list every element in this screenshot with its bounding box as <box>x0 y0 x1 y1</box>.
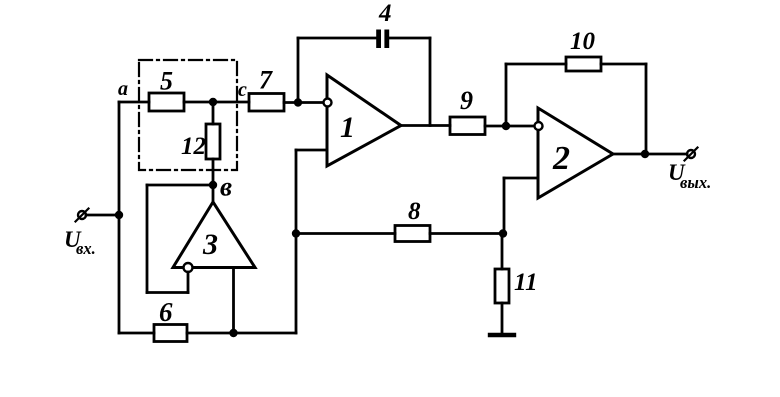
dashed box around 5 and 12 <box>139 60 237 170</box>
op-amp 1 <box>324 75 402 166</box>
wire op-amp2 lower input <box>504 177 538 180</box>
resistor 5 <box>149 93 184 111</box>
wire left vertical bus a-to-bottom <box>118 102 121 333</box>
junction row8 left node <box>292 229 300 237</box>
output terminal Uвых. <box>685 148 698 161</box>
wire feedback top right segment <box>389 37 430 40</box>
wire feedback2 top left segment <box>506 63 566 66</box>
svg-text:a: a <box>118 78 128 100</box>
wire resistor5 to resistor7 <box>184 101 249 104</box>
svg-text:11: 11 <box>514 269 538 296</box>
wire feedback2 top right segment <box>601 63 646 66</box>
wire feedback2 down to output <box>645 64 648 154</box>
resistor 11 <box>495 269 509 303</box>
wire resistor 12 to node в <box>212 159 215 202</box>
wire feedback up from input node <box>297 38 300 103</box>
wire feedback3 left vertical <box>146 185 149 293</box>
wire resistor9 to op-amp2 input <box>485 125 534 128</box>
wire feedback3 up to inverting input circle <box>187 272 190 293</box>
wire node down to resistor 11 <box>501 234 504 270</box>
wire node в feedback horizontal <box>147 184 213 187</box>
resistor 7 <box>249 94 284 112</box>
resistor 6 <box>154 325 187 342</box>
wire op-amp1 output <box>401 124 450 127</box>
junction bottom node <box>229 329 237 337</box>
svg-text:вх.: вх. <box>76 239 96 258</box>
resistor 9 <box>450 117 485 135</box>
input terminal Uвх. <box>76 209 89 222</box>
wire lower input down to node row8 <box>295 150 298 333</box>
ground <box>490 333 514 337</box>
wire feedback3 bottom horizontal <box>147 291 188 294</box>
wire feedback2 up <box>505 64 508 126</box>
svg-text:2: 2 <box>552 140 570 177</box>
resistor 8 <box>395 226 430 242</box>
wire row8 right segment <box>430 232 503 235</box>
wire resistor11 to ground <box>501 303 504 334</box>
svg-text:4: 4 <box>378 0 392 27</box>
wire row8 left segment <box>296 232 395 235</box>
capacitor 4 <box>376 30 389 49</box>
wire resistor7 to op-amp1 input <box>284 101 324 104</box>
junction feedback node at op-amp2 input <box>502 122 510 130</box>
op-amp 2 <box>535 108 614 198</box>
svg-text:10: 10 <box>570 28 596 55</box>
wire op-amp1 lower input <box>296 149 327 152</box>
svg-text:12: 12 <box>181 133 206 160</box>
wire op-amp2 lower input down to node <box>503 178 506 234</box>
svg-text:1: 1 <box>340 111 355 144</box>
junction output node <box>641 150 649 158</box>
wire input terminal to left bus <box>86 214 119 217</box>
wire junction down to resistor 12 <box>212 102 215 124</box>
svg-text:вых.: вых. <box>680 173 711 192</box>
junction node в <box>209 181 217 189</box>
wire feedback top left segment <box>298 37 376 40</box>
wire bottom right segment <box>187 332 296 335</box>
junction node c column <box>209 98 217 106</box>
svg-text:6: 6 <box>159 297 173 327</box>
svg-text:5: 5 <box>160 67 173 96</box>
svg-text:7: 7 <box>259 66 273 95</box>
junction input node <box>115 211 123 219</box>
wire bottom left segment <box>119 332 154 335</box>
junction feedback node at op-amp1 input <box>294 98 302 106</box>
svg-text:в: в <box>220 172 232 202</box>
resistor 12 <box>206 124 220 159</box>
svg-text:9: 9 <box>460 86 473 115</box>
wire feedback down to op-amp1 output <box>429 38 432 126</box>
wire op-amp2 output <box>613 153 687 156</box>
wire op-amp3 right input down <box>232 268 235 334</box>
op-amp 3 <box>173 202 255 272</box>
svg-text:3: 3 <box>202 228 218 261</box>
wire node a horizontal <box>119 101 149 104</box>
svg-text:8: 8 <box>408 198 421 225</box>
svg-text:c: c <box>238 79 247 101</box>
junction row8 right node <box>499 229 507 237</box>
resistor 10 <box>566 57 601 71</box>
